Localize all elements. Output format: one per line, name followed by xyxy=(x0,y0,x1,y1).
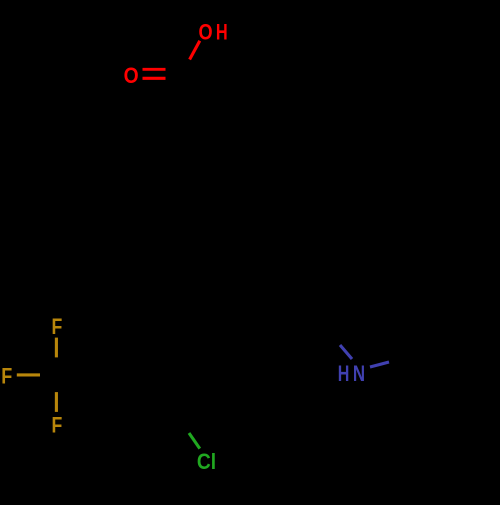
bond C-Cl xyxy=(189,433,200,449)
indole HN label xyxy=(338,361,365,386)
bond C-F left xyxy=(17,373,40,376)
double bond C=O line 2 xyxy=(143,77,166,80)
svg-text:O: O xyxy=(124,63,139,88)
carboxylic acid OH label xyxy=(199,19,228,44)
double bond C=O line 1 xyxy=(143,68,166,71)
svg-text:Cl: Cl xyxy=(197,449,216,474)
bond N-C right xyxy=(370,362,389,367)
bond C-OH xyxy=(190,41,200,60)
svg-text:F: F xyxy=(52,412,63,437)
svg-text:N: N xyxy=(353,361,365,386)
bond N-C upper left xyxy=(340,345,352,359)
svg-text:H: H xyxy=(216,19,228,44)
svg-text:F: F xyxy=(52,314,63,339)
svg-text:H: H xyxy=(338,361,350,386)
bond C-F top xyxy=(55,338,58,358)
bond C-F bottom xyxy=(55,392,58,412)
svg-text:F: F xyxy=(1,364,12,389)
svg-text:O: O xyxy=(199,19,213,44)
